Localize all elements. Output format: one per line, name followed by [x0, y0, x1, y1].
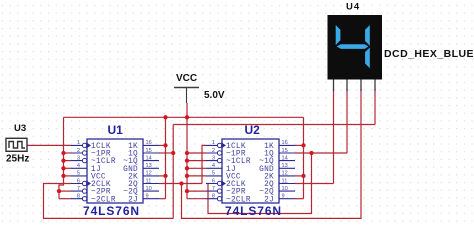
svg-text:8: 8 — [77, 194, 80, 200]
svg-text:13: 13 — [146, 163, 152, 169]
svg-text:U3: U3 — [14, 123, 26, 134]
svg-text:3: 3 — [212, 155, 215, 161]
svg-text:3: 3 — [77, 155, 80, 161]
svg-text:6: 6 — [77, 178, 80, 184]
svg-text:12: 12 — [146, 171, 152, 177]
svg-text:5.0V: 5.0V — [204, 90, 225, 101]
svg-text:7: 7 — [77, 186, 80, 192]
svg-text:U1: U1 — [108, 123, 124, 137]
svg-text:~2CLR: ~2CLR — [226, 196, 251, 204]
svg-text:4: 4 — [77, 163, 80, 169]
svg-text:14: 14 — [282, 155, 288, 161]
svg-text:2J: 2J — [264, 196, 274, 204]
svg-text:7: 7 — [212, 186, 215, 192]
svg-text:VCC: VCC — [176, 73, 197, 84]
svg-text:15: 15 — [146, 148, 152, 154]
svg-text:4: 4 — [212, 163, 215, 169]
svg-text:15: 15 — [282, 148, 288, 154]
svg-text:12: 12 — [282, 171, 288, 177]
svg-text:8: 8 — [212, 194, 215, 200]
svg-text:9: 9 — [282, 194, 285, 200]
svg-text:6: 6 — [212, 178, 215, 184]
svg-text:10: 10 — [282, 186, 288, 192]
svg-text:U4: U4 — [346, 2, 360, 13]
svg-text:9: 9 — [146, 194, 149, 200]
svg-text:2J: 2J — [128, 196, 138, 204]
svg-text:10: 10 — [146, 186, 152, 192]
svg-text:5: 5 — [77, 171, 80, 177]
svg-text:74LS76N: 74LS76N — [225, 204, 282, 218]
svg-text:~2CLR: ~2CLR — [91, 196, 116, 204]
svg-text:5: 5 — [212, 171, 215, 177]
svg-text:74LS76N: 74LS76N — [83, 204, 140, 218]
svg-text:DCD_HEX_BLUE: DCD_HEX_BLUE — [384, 48, 474, 60]
svg-text:U2: U2 — [245, 123, 261, 137]
svg-text:16: 16 — [282, 140, 288, 146]
svg-text:11: 11 — [282, 178, 288, 184]
svg-text:11: 11 — [146, 178, 152, 184]
svg-text:16: 16 — [146, 140, 152, 146]
svg-text:14: 14 — [146, 155, 152, 161]
svg-text:25Hz: 25Hz — [6, 154, 29, 165]
svg-text:1: 1 — [212, 140, 215, 146]
svg-text:2: 2 — [212, 148, 215, 154]
svg-text:1: 1 — [77, 140, 80, 146]
svg-text:13: 13 — [282, 163, 288, 169]
svg-text:2: 2 — [77, 148, 80, 154]
